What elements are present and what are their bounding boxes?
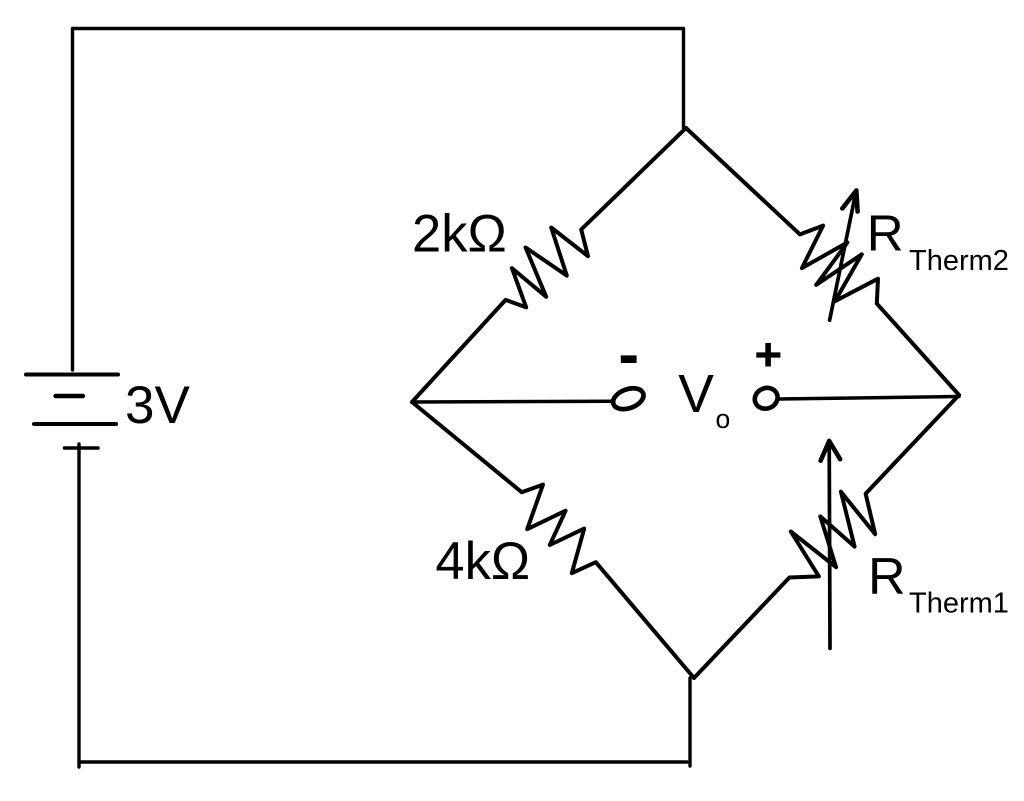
svg-text:R: R: [868, 548, 906, 606]
svg-text:2kΩ: 2kΩ: [412, 205, 507, 264]
svg-text:V: V: [678, 365, 714, 424]
svg-text:3V: 3V: [125, 376, 190, 435]
svg-text:R: R: [867, 205, 904, 262]
svg-text:4kΩ: 4kΩ: [435, 532, 530, 591]
svg-text:o: o: [716, 404, 731, 434]
svg-text:Therm1: Therm1: [909, 588, 1009, 620]
svg-text:Therm2: Therm2: [909, 245, 1009, 277]
